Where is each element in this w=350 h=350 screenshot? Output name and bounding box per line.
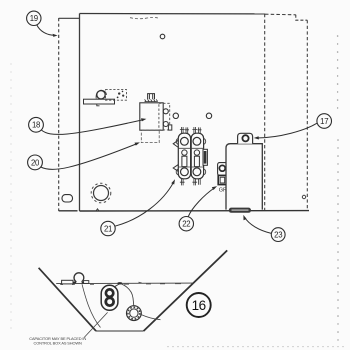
capacitor box <box>226 144 262 210</box>
contactor right pole <box>191 133 203 179</box>
ground bracket tab <box>218 163 227 176</box>
tab hole <box>242 135 248 141</box>
contactor left side tabs <box>173 140 178 171</box>
note leader line <box>84 312 108 337</box>
leader 21 <box>115 182 174 226</box>
hidden switch body dashed <box>106 90 127 101</box>
control box: bottom edge <box>59 210 309 212</box>
deck component flat box <box>62 280 73 284</box>
wire capsule to deck <box>114 283 120 286</box>
relay U1 main body <box>140 103 163 130</box>
relay mounting hatch strip <box>145 99 158 101</box>
screw hole bottom right <box>302 195 305 198</box>
contactor C left pole <box>178 133 190 179</box>
callout 20 <box>28 155 43 170</box>
switch clamp outer arc <box>96 90 106 98</box>
callout 16 <box>187 293 211 317</box>
contactor big circles bottom <box>181 168 189 176</box>
callout 19 <box>27 11 41 25</box>
relay lower bracket dash-dot <box>141 130 159 142</box>
ground bracket hole <box>219 165 225 171</box>
svg-text:16: 16 <box>192 298 206 313</box>
contactor right side slots <box>203 149 207 165</box>
ground bracket body <box>218 175 226 184</box>
callout 23 <box>271 228 285 242</box>
contactor section dividers <box>178 148 203 167</box>
leader 22 <box>188 188 215 217</box>
contactor side scallops <box>176 138 205 175</box>
bar foot tick <box>97 104 100 106</box>
wire grommet to edge <box>141 315 160 320</box>
knockout hole serration <box>91 183 111 203</box>
left flange slot <box>62 195 73 202</box>
svg-text:18: 18 <box>32 121 40 130</box>
grommet ring hatch <box>128 307 140 319</box>
svg-text:20: 20 <box>31 158 40 167</box>
contactor top terminals <box>180 127 202 133</box>
screw hole top <box>160 34 165 39</box>
leader 20 <box>41 144 138 170</box>
dots inside switch body <box>118 92 120 94</box>
svg-text:19: 19 <box>30 14 38 23</box>
control box: right dashed cover edge <box>306 20 308 210</box>
capacitor terminal top <box>106 289 113 296</box>
page border dotted bottom row <box>167 346 343 347</box>
contactor big circles top <box>181 137 189 145</box>
control box: front left edge <box>79 14 81 212</box>
control box: top edge <box>80 13 266 15</box>
callout 21 <box>101 221 115 235</box>
callout 22 <box>179 217 193 231</box>
leader 17 <box>257 123 318 138</box>
contactor contact bars <box>182 156 187 166</box>
wire deck to grommet <box>121 284 134 306</box>
leader 18 <box>41 120 143 135</box>
wire from deck down left <box>82 284 101 327</box>
lower view: deck line <box>56 282 194 285</box>
contactor small circles mid <box>182 150 187 155</box>
switch clamp circle <box>97 91 105 99</box>
lower view: left diagonal <box>39 268 96 331</box>
svg-text:21: 21 <box>104 224 112 233</box>
grommet ring outer <box>126 306 141 321</box>
knockout hole <box>94 186 109 201</box>
hidden edge scribble under top edge <box>130 17 158 18</box>
pressure switch bar <box>84 99 115 104</box>
relay terminal circle lower <box>163 122 168 127</box>
relay top bracket <box>148 94 155 100</box>
callout 17 <box>317 114 332 129</box>
small square top-left of contactor <box>168 125 171 130</box>
deck tick <box>139 281 142 284</box>
contactor bottom terminals <box>180 179 200 186</box>
screw hole mid right <box>206 113 211 118</box>
grommet ring inner <box>130 309 138 317</box>
page border dotted left column (faint) <box>10 63 11 328</box>
wire junction blob <box>117 282 122 284</box>
control box: top-left step <box>59 17 80 19</box>
mounting strap item 23 <box>229 208 251 213</box>
screw hole mid left <box>173 113 178 118</box>
lower view: bottom edge <box>96 330 144 332</box>
small deck fitting <box>84 281 89 284</box>
control box: right fold dashed line <box>264 14 266 211</box>
page border dotted right column <box>337 35 339 340</box>
svg-text:17: 17 <box>320 117 328 126</box>
lower view: right diagonal <box>144 250 228 331</box>
callout 18 <box>29 117 44 132</box>
capacitor terminal bottom <box>106 298 114 306</box>
capacitor box mounting tab <box>238 133 253 143</box>
svg-text:22: 22 <box>182 220 190 229</box>
svg-text:23: 23 <box>274 231 282 240</box>
relay terminal circle upper <box>163 109 168 114</box>
relay hidden body dashed <box>159 103 170 130</box>
fan motor circle <box>74 273 84 282</box>
bottom edge notch <box>96 209 99 211</box>
control box: right step <box>296 15 308 20</box>
control box: top right dashed flange <box>265 13 296 16</box>
svg-text:CONTROL BOX AS SHOWN: CONTROL BOX AS SHOWN <box>34 341 83 346</box>
capacitor capsule <box>101 285 118 310</box>
leader 23 <box>245 217 272 233</box>
control box: dashed left cover edge <box>58 18 60 211</box>
leader 19 <box>37 25 55 36</box>
ground bracket inner <box>220 177 225 183</box>
